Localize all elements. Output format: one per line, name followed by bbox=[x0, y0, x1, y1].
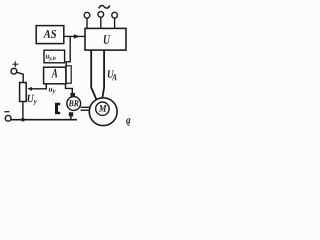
junction dot bbox=[21, 118, 25, 122]
feedback resistor bbox=[66, 66, 71, 83]
wire A to BR bbox=[66, 84, 73, 93]
potentiometer RP body bbox=[20, 83, 27, 102]
label U_A armature voltage bbox=[108, 70, 117, 80]
AC terminal circle 2 bbox=[98, 12, 104, 18]
label u_y bbox=[49, 88, 56, 94]
figure label a bbox=[126, 118, 130, 123]
wire plus terminal to potentiometer bbox=[17, 72, 24, 82]
plus sign bbox=[12, 61, 18, 67]
tachogenerator BR bbox=[67, 97, 81, 111]
AC terminal stem 1 bbox=[86, 18, 88, 28]
motor M inner circle bbox=[96, 102, 109, 115]
AC terminal circle 3 bbox=[112, 12, 118, 18]
stub BR bottom to rail bbox=[70, 116, 72, 120]
block u_y,p bbox=[44, 50, 65, 63]
terminal circle plus bbox=[11, 68, 17, 74]
potentiometer wiper arrow bbox=[27, 84, 46, 91]
arrow AS to U bbox=[64, 34, 85, 38]
terminal circle minus bbox=[5, 115, 11, 121]
riser wire feedback resistor to AS-U arrow bbox=[66, 37, 70, 66]
shaft BR to M lower line bbox=[81, 109, 90, 111]
armature wire right bbox=[102, 50, 104, 97]
block A amplifier bbox=[44, 67, 66, 84]
wire potentiometer bottom to rail bbox=[22, 102, 24, 120]
block U converter bbox=[85, 28, 126, 50]
bracket connector bbox=[55, 103, 60, 114]
shaft BR to M upper line bbox=[81, 106, 90, 108]
BR top terminal square bbox=[70, 93, 75, 97]
small mark under figure label bbox=[127, 125, 129, 126]
BR bottom terminal square bbox=[69, 112, 73, 116]
AC terminal stem 3 bbox=[114, 18, 116, 28]
label U_y bbox=[27, 95, 36, 105]
AC terminal stem 2 bbox=[100, 17, 102, 28]
motor M outer circle bbox=[89, 98, 117, 126]
armature wire left bbox=[91, 50, 96, 100]
bottom rail wire bbox=[11, 119, 77, 121]
minus sign bbox=[4, 111, 9, 113]
tilde AC symbol bbox=[99, 5, 110, 8]
block AS bbox=[36, 26, 64, 44]
AC terminal circle 1 bbox=[84, 12, 90, 18]
